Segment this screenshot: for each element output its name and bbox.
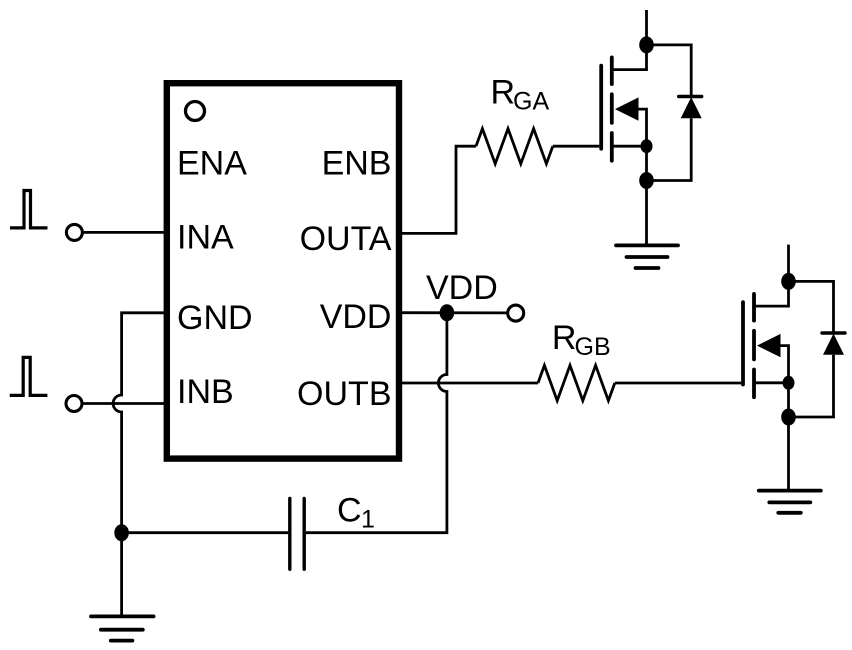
svg-text:OUTB: OUTB <box>297 375 391 413</box>
wire diode D1 branch bottom <box>647 118 692 180</box>
transistor Q1 drain wire <box>612 45 647 70</box>
transistor Q2 source wire <box>754 381 789 384</box>
terminal INB <box>66 396 82 412</box>
svg-text:C: C <box>337 492 362 530</box>
svg-text:R: R <box>552 319 577 357</box>
junction Q1 drain node <box>639 36 654 53</box>
capacitor C1 plates <box>290 499 304 570</box>
wire INB input <box>83 402 167 405</box>
wire VDD pin <box>399 311 507 314</box>
wire GND pin with hop over INB <box>113 313 167 617</box>
transistor Q2 drain wire <box>754 281 789 306</box>
pin-1 indicator circle <box>186 102 205 121</box>
ground symbol left <box>91 616 154 640</box>
wire capacitor to VDD rail with hop over OUTB <box>306 313 447 533</box>
diode D2 triangle <box>823 334 844 355</box>
junction Q2 bottom node <box>781 409 796 426</box>
wire RGA to gate Q1 <box>553 145 600 148</box>
wire INA input <box>83 231 167 234</box>
transistor Q1 body arrow <box>615 97 639 120</box>
transistor Q2 body wire <box>773 346 789 383</box>
svg-text:VDD: VDD <box>426 269 498 307</box>
terminal INA <box>66 224 82 240</box>
svg-text:INB: INB <box>177 373 234 411</box>
diode D1 triangle <box>681 97 702 118</box>
junction Q2 drain node <box>781 273 796 290</box>
junction Q2 source node <box>783 376 795 390</box>
transistor Q2 body arrow <box>757 334 781 357</box>
wire Q2 source to ground <box>787 417 790 491</box>
wire top supply A <box>645 10 648 45</box>
input pulse symbol INB <box>10 357 48 395</box>
input pulse symbol INA <box>10 191 48 228</box>
ground symbol A <box>616 245 678 268</box>
transistor Q1 gate bar <box>599 66 603 149</box>
wire diode D1 branch top <box>647 45 692 97</box>
svg-text:ENA: ENA <box>177 144 247 182</box>
wire top supply B <box>787 245 790 282</box>
transistor Q1 channel segments <box>610 57 614 160</box>
IC U1 body <box>167 83 399 458</box>
wire RGB to gate Q2 <box>615 382 741 385</box>
transistor Q2 channel segments <box>752 294 756 397</box>
wire diode D2 branch bottom <box>789 355 834 417</box>
junction ground node <box>114 524 129 541</box>
diode D1 cathode bar <box>679 95 702 98</box>
svg-text:OUTA: OUTA <box>300 220 392 258</box>
terminal VDD <box>508 305 524 321</box>
svg-text:GND: GND <box>177 299 253 337</box>
transistor Q2 gate bar <box>741 302 745 384</box>
svg-text:INA: INA <box>177 218 234 256</box>
svg-text:R: R <box>491 73 516 111</box>
svg-text:1: 1 <box>361 506 375 534</box>
junction Q1 bottom node <box>639 172 654 189</box>
wire ground node to capacitor <box>122 531 289 534</box>
wire Q1 source to ground <box>645 181 648 246</box>
transistor Q1 body wire <box>632 109 647 146</box>
transistor Q1 source wire <box>612 145 647 148</box>
svg-text:GA: GA <box>513 88 549 116</box>
junction Q1 source node <box>641 139 653 153</box>
wire Q2 source to bottom node <box>787 383 790 417</box>
wire OUTB to resistor <box>399 382 538 385</box>
svg-text:GB: GB <box>575 333 611 361</box>
svg-text:VDD: VDD <box>320 298 392 336</box>
junction VDD node <box>440 304 455 321</box>
wire diode D2 branch top <box>789 281 834 333</box>
wire Q1 source to bottom node <box>645 146 648 180</box>
wire OUTA to resistor <box>399 146 476 233</box>
resistor RGA <box>476 129 553 164</box>
svg-text:ENB: ENB <box>322 145 392 183</box>
resistor RGB <box>538 365 615 400</box>
ground symbol B <box>759 491 821 513</box>
diode D2 cathode bar <box>822 331 845 334</box>
